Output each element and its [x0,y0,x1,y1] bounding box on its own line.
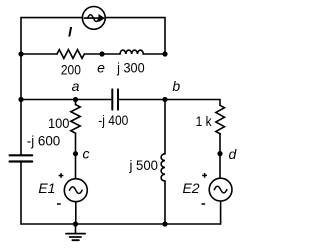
svg-text:I: I [68,24,73,40]
inductor L j500 [161,154,165,181]
wire top left horizontal [21,17,82,19]
wire left vertical top segment [20,18,22,155]
wire row3 right (cap to right corner) [119,99,220,101]
E2 sine [214,186,227,193]
wire a stub [75,100,77,105]
ground bars [66,234,85,241]
junction dot row2 right [162,51,167,56]
node d dot [217,151,222,156]
wire a to E1 [75,133,77,179]
wire row2 mid (through node e) [84,53,120,55]
svg-text:E2: E2 [182,180,199,196]
wire E1 to bottom [75,202,77,224]
inductor L j300 [120,50,143,54]
E2 minus sign [201,203,205,205]
wire bottom rail [21,223,221,225]
wire coil to bottom [164,181,166,224]
svg-text:c: c [83,145,90,161]
wire row3 left (a to cap) [21,99,111,101]
svg-text:100: 100 [48,115,70,131]
resistor R 200 [57,50,84,59]
node c dot [73,151,78,156]
AC source E1 circle [64,179,87,202]
wire E2 to bottom [220,201,222,224]
E1 plus sign [59,173,64,178]
svg-text:d: d [229,146,238,162]
svg-text:1 k: 1 k [196,113,213,129]
svg-text:E1: E1 [38,180,55,196]
junction dot bottom b [162,221,167,226]
node e dot [99,51,104,56]
wire right corner drop [219,100,221,106]
capacitor C -j400 plates [112,89,118,109]
node b dot [162,97,167,102]
wire row2 left [21,53,57,55]
svg-text:b: b [172,78,180,94]
svg-text:-j 600: -j 600 [27,132,61,148]
current source arrowhead [99,15,104,21]
svg-text:j 500: j 500 [129,157,159,173]
junction dot bottom E1 [73,221,78,226]
junction dot row3 left [18,97,23,102]
node a dot [73,97,78,102]
ground stub [75,224,77,233]
capacitor C -j600 plates [10,155,33,161]
current source sine [88,15,100,22]
resistor R 1k [216,105,225,134]
svg-text:-j 400: -j 400 [98,112,128,128]
wire top right horizontal [105,17,165,19]
wire row2 right [143,53,165,55]
wire b down to coil [164,100,166,154]
junction dot row2 left [18,51,23,56]
svg-text:a: a [72,78,80,94]
AC source E2 circle [209,178,232,201]
svg-text:e: e [97,60,105,76]
E1 sine [70,187,83,194]
E1 minus sign [57,203,61,205]
svg-text:200: 200 [61,62,81,78]
svg-text:j 300: j 300 [116,59,145,75]
wire 1k to E2 [219,134,221,178]
resistor R 100 [71,105,80,134]
wire top right drop [164,18,166,54]
wire left vertical bottom segment [20,163,22,225]
current source arrow shaft [84,17,99,19]
E2 plus sign [202,173,207,178]
AC current source I circle [82,7,105,30]
